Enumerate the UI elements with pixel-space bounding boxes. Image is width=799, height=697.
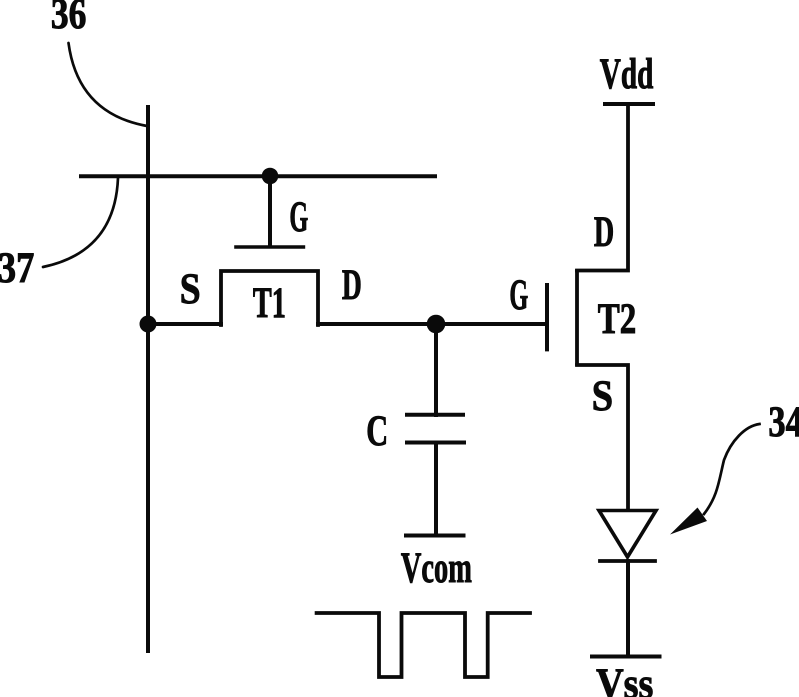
- LED cathode bar: [600, 559, 655, 563]
- svg-text:36: 36: [51, 0, 87, 38]
- leader arc from 36 to data line: [69, 43, 148, 126]
- Vcom terminal bar: [406, 534, 464, 538]
- svg-text:S: S: [592, 373, 613, 420]
- wire capacitor to Vcom terminal: [434, 443, 438, 536]
- junction dot on scan line: [262, 168, 279, 185]
- Vdd terminal bar: [605, 102, 653, 106]
- T2 drain arm: [577, 104, 628, 271]
- svg-text:Vss: Vss: [596, 661, 653, 697]
- svg-text:G: G: [289, 194, 308, 241]
- storage node dot: [427, 315, 446, 334]
- wire T1 drain to storage node: [318, 322, 436, 326]
- wire data line to T1 source: [148, 322, 221, 326]
- node dot on data line: [140, 316, 157, 333]
- wire LED to Vss: [626, 561, 630, 656]
- transistor T2 channel: [575, 271, 579, 364]
- wire storage node to T2 gate: [436, 322, 547, 326]
- svg-text:T1: T1: [253, 280, 286, 327]
- transistor T1 channel: [221, 271, 318, 325]
- scan line (37): [81, 174, 435, 178]
- wire storage node to capacitor: [434, 324, 438, 415]
- svg-text:Vcom: Vcom: [401, 545, 472, 592]
- wire T1 gate: [268, 176, 272, 245]
- T2 source arm: [577, 365, 628, 510]
- data line (36): [146, 107, 150, 651]
- svg-text:D: D: [342, 262, 362, 309]
- svg-text:37: 37: [0, 245, 34, 292]
- T1 gate bar: [236, 245, 303, 249]
- svg-text:T2: T2: [598, 296, 637, 343]
- leader arc from 37 to scan line: [43, 178, 118, 267]
- svg-text:D: D: [594, 209, 614, 256]
- capacitor C top plate: [407, 413, 463, 417]
- Vss terminal bar: [592, 655, 660, 659]
- LED 34 triangle: [599, 511, 656, 558]
- svg-text:G: G: [509, 272, 528, 319]
- T2 gate bar: [545, 285, 549, 349]
- svg-text:S: S: [180, 266, 201, 313]
- Vcom waveform: [317, 613, 530, 677]
- svg-text:Vdd: Vdd: [600, 51, 654, 98]
- svg-text:C: C: [366, 408, 388, 455]
- svg-text:34: 34: [768, 399, 799, 446]
- capacitor C bottom plate: [407, 441, 464, 445]
- leader arrow from 34 to LED: [670, 424, 760, 535]
